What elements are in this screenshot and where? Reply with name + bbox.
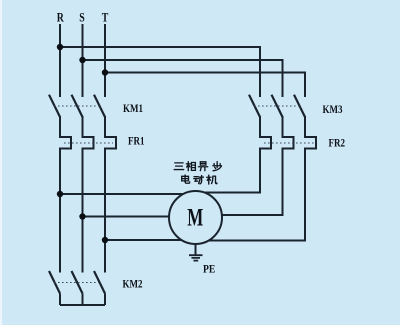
node junction motor W1 — [102, 237, 108, 243]
wire phase T vertical (top to KM1 pole 3) — [104, 25, 106, 96]
wire FR1 pole 2 down to KM2 pole 2 — [82, 149, 84, 272]
wire KM3 pole 1 to FR2 pole 1 — [259, 117, 261, 137]
node junction R — [57, 44, 63, 50]
thermal relay FR2 pole 3 heater — [305, 137, 316, 149]
svg-text:R: R — [57, 11, 65, 24]
wire KM1 pole 1 to FR1 pole 1 — [59, 117, 61, 137]
wire FR2 pole 2 to motor U2 (right middle) — [220, 149, 283, 216]
svg-text:FR1: FR1 — [128, 135, 144, 147]
wire KM1 pole 2 to FR1 pole 2 — [82, 117, 84, 137]
wire branch S to KM3 pole 2 — [83, 60, 283, 96]
node junction T — [102, 69, 108, 75]
char 动 — [194, 176, 204, 184]
wire motor feed W1 (left bottom) — [105, 239, 196, 241]
contactor KM2 pole 3 blade — [94, 271, 105, 294]
contactor KM3 pole 2 blade — [272, 95, 283, 117]
label 三相异步 (three-phase async) line 1 — [174, 162, 221, 171]
ground PE stem — [195, 244, 197, 255]
svg-text:KM3: KM3 — [323, 104, 343, 116]
wire branch R to KM3 pole 1 — [60, 47, 260, 96]
svg-text:PE: PE — [203, 263, 215, 276]
contactor KM3 linkage dotted line — [254, 105, 300, 107]
thermal relay FR2 pole 1 heater — [260, 137, 271, 149]
char 相 — [186, 162, 195, 171]
contactor KM3 pole 1 blade — [249, 95, 260, 117]
wire KM3 pole 2 to FR2 pole 2 — [282, 117, 284, 137]
wire motor feed V1 (left middle) — [83, 216, 173, 218]
char 异 — [198, 162, 207, 171]
motor M1 circle — [169, 191, 222, 244]
contactor KM2 linkage dotted line — [54, 282, 100, 284]
contactor KM1 pole 3 blade — [94, 95, 105, 117]
contactor KM1 pole 2 blade — [72, 95, 83, 117]
wire FR1 pole 3 down to KM2 pole 3 — [104, 149, 106, 272]
wire phase R vertical (top to KM1 pole 1) — [59, 25, 61, 96]
label 电动机 (motor) line 2 — [182, 175, 217, 184]
thermal relay FR1 pole 1 heater — [60, 137, 71, 149]
node junction motor V1 — [79, 213, 85, 219]
char 机 — [207, 175, 217, 184]
contactor KM3 pole 3 blade — [294, 95, 305, 117]
wire KM2 star shorting bar — [60, 294, 105, 306]
svg-text:T: T — [102, 11, 109, 24]
svg-text:M: M — [187, 203, 203, 231]
svg-text:S: S — [79, 11, 84, 24]
contactor KM2 pole 2 blade — [72, 271, 83, 294]
thermal relay FR2 pole 2 heater — [283, 137, 294, 149]
wire FR1 pole 1 down to KM2 pole 1 — [59, 149, 61, 272]
wire KM1 pole 3 to FR1 pole 3 — [104, 117, 106, 137]
char 电 — [182, 175, 190, 183]
contactor KM1 pole 1 blade — [49, 95, 60, 117]
thermal relay FR1 linkage dotted line — [64, 142, 113, 144]
svg-text:KM2: KM2 — [123, 278, 143, 290]
node junction motor U1 — [57, 191, 63, 197]
thermal relay FR1 pole 3 heater — [105, 137, 116, 149]
thermal relay FR2 linkage dotted line — [264, 142, 314, 144]
thermal relay FR1 pole 2 heater — [83, 137, 94, 149]
wire branch T to KM3 pole 3 — [105, 73, 305, 97]
contactor KM2 pole 1 blade — [49, 271, 60, 294]
char 三 — [174, 163, 184, 170]
contactor KM1 linkage dotted line — [54, 105, 100, 107]
node junction S — [79, 57, 85, 63]
ground symbol bars — [189, 255, 203, 260]
wire FR2 pole 1 to motor W2 (right top) — [206, 149, 260, 193]
svg-text:KM1: KM1 — [123, 103, 143, 115]
svg-text:FR2: FR2 — [329, 137, 345, 149]
wire motor feed U1 (left top) — [60, 193, 186, 195]
wire FR2 pole 3 to motor V2 (right bottom) — [196, 149, 305, 241]
char 步 — [213, 162, 222, 171]
wire KM3 pole 3 to FR2 pole 3 — [304, 117, 306, 137]
wire phase S vertical (top to KM1 pole 2) — [82, 25, 84, 96]
